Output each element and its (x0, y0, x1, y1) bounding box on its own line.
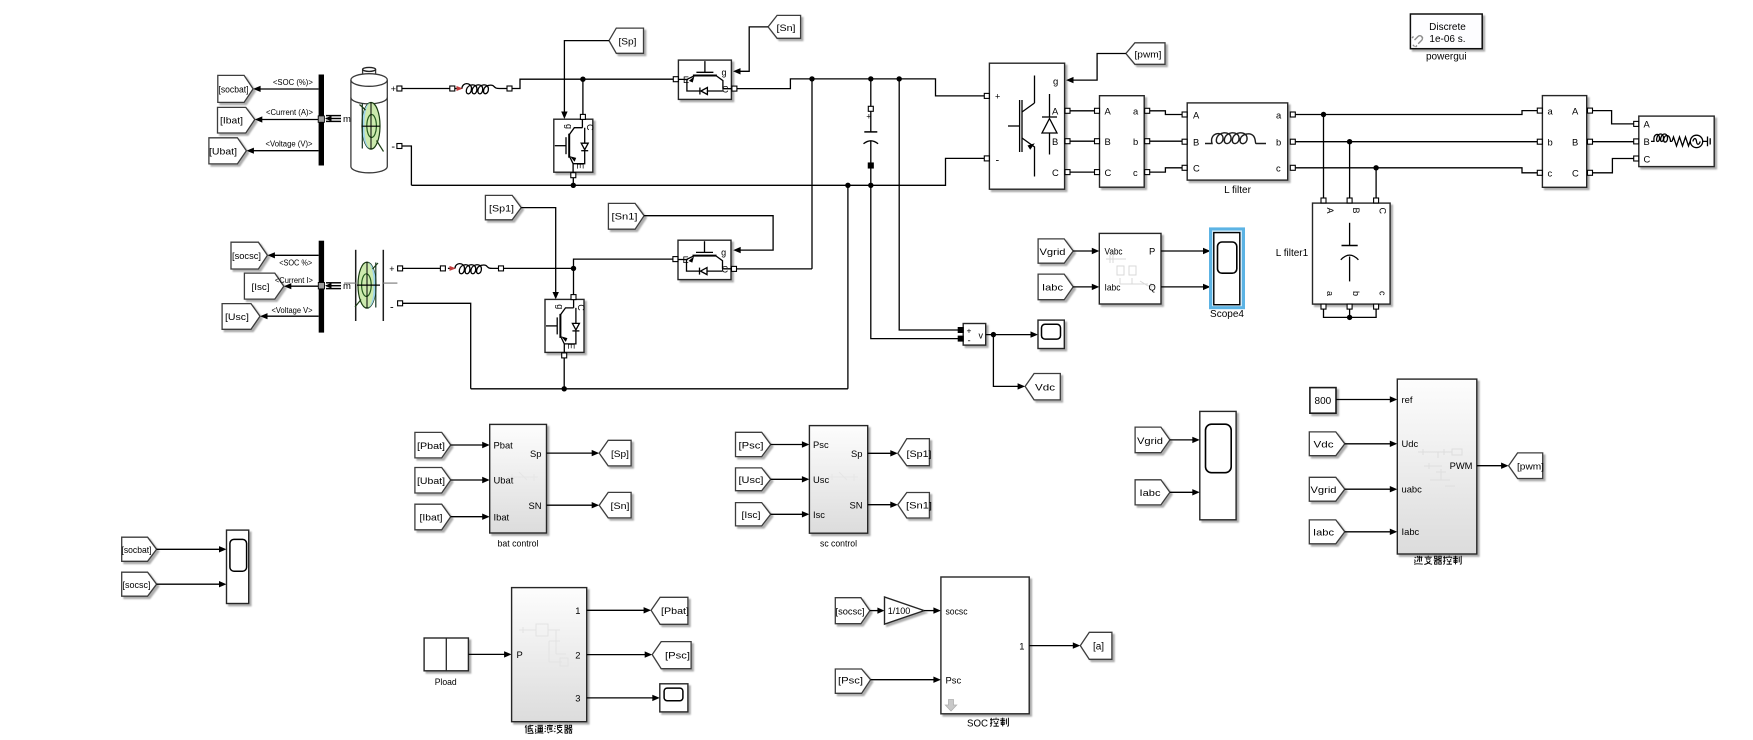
svg-text:Vdc: Vdc (1035, 382, 1056, 392)
svg-text:[Psc]: [Psc] (665, 651, 690, 661)
from tag [Sp1] (485, 195, 521, 219)
goto tag [Sp] out (599, 440, 631, 466)
sc control subsystem block (809, 426, 867, 534)
from tag [Isc] (736, 503, 771, 526)
svg-text:[Sp]: [Sp] (619, 37, 637, 47)
from tag [Psc] (736, 432, 771, 456)
svg-text:3: 3 (575, 693, 580, 704)
from tag [Sn1] (608, 203, 644, 229)
from tag [Psc] (soc ctrl) (835, 669, 870, 693)
bus selector bar (sc) (319, 241, 324, 333)
constant block 800 (1310, 388, 1336, 414)
from tag Iabc (1038, 274, 1073, 300)
svg-text:+: + (389, 264, 394, 274)
from tag [Sp] (609, 28, 644, 53)
svg-text:+: + (866, 112, 871, 122)
wire [Sn1] to IGBT4 gate (644, 216, 773, 250)
svg-text:B: B (1572, 137, 1578, 148)
from tag [Pbat] (415, 432, 451, 458)
svg-text:A: A (1325, 208, 1335, 214)
wire [Sn] to IGBT2 gate (740, 27, 768, 71)
measurement triple-line into bus selector 2 (326, 283, 341, 289)
svg-text:Vabc: Vabc (1105, 246, 1123, 257)
from tag [socsc] (soc ctrl) (835, 598, 870, 624)
svg-text:[socsc]: [socsc] (836, 607, 865, 617)
wire Iabc to Iabc (1345, 531, 1391, 533)
svg-text:+: + (995, 92, 1000, 102)
svg-text:2: 2 (575, 649, 580, 660)
wire Pload to LPF (468, 653, 505, 655)
svg-text:Scope4: Scope4 (1210, 309, 1244, 320)
svg-text:L filter: L filter (1224, 185, 1252, 196)
svg-text:Discrete: Discrete (1429, 22, 1466, 33)
svg-text:Iabc: Iabc (1105, 281, 1121, 292)
wires tags to sc control (771, 444, 803, 446)
svg-text:uabc: uabc (1402, 484, 1423, 495)
svg-text:PWM: PWM (1450, 460, 1473, 471)
svg-text:[Sn]: [Sn] (777, 23, 796, 33)
from tag [socbat] (bottom) (122, 537, 157, 561)
svg-text:b: b (1548, 137, 1553, 148)
svg-text:SOC: SOC (967, 719, 988, 730)
low-pass filter Chinese label (525, 725, 572, 734)
svg-text:[socbat]: [socbat] (219, 85, 249, 95)
svg-text:<SOC %>: <SOC %> (279, 258, 312, 267)
svg-text:[Sp1]: [Sp1] (907, 449, 932, 459)
svg-text:Psc: Psc (813, 439, 829, 450)
vertical link dc- bus down to voltage measurement - (871, 185, 958, 338)
current direction red arrow (sc) (450, 266, 457, 271)
scope3 (Pload scope) (660, 684, 688, 712)
L filter1 bottom shorting bus (1324, 309, 1377, 317)
goto tag [pwm] out (1509, 453, 1543, 479)
Pload source block (424, 638, 468, 671)
svg-text:[Pbat]: [Pbat] (417, 441, 445, 451)
svg-text:C: C (1105, 167, 1112, 178)
wires PQ to Scope4 (1161, 250, 1203, 252)
svg-text:Vgrid: Vgrid (1137, 436, 1163, 446)
goto tag [socsc] (231, 242, 267, 269)
svg-text:c: c (1378, 291, 1388, 296)
wires sc control outputs (868, 452, 892, 454)
universal bridge inverter U1 (989, 63, 1064, 189)
svg-text:C: C (1052, 167, 1059, 178)
svg-text:b: b (1276, 137, 1281, 148)
svg-text:m: m (343, 114, 351, 125)
from tag Iabc (scope) (1135, 480, 1170, 505)
svg-text:A: A (1644, 119, 1651, 130)
wire socbat from bus-selector to [socbat] tag (250, 89, 319, 151)
svg-text:[socsc]: [socsc] (123, 580, 151, 590)
IGBT2 block (battery boost, horizontal) (678, 60, 731, 99)
svg-text:[Ibat]: [Ibat] (220, 115, 243, 125)
wire Vgrid to uabc (1345, 488, 1391, 490)
svg-text:1e-06 s.: 1e-06 s. (1429, 34, 1465, 45)
svg-text:[Isc]: [Isc] (252, 282, 270, 292)
svg-text:a: a (1325, 291, 1335, 296)
Scope4 block (1214, 233, 1240, 305)
goto tag [Sp1] out (898, 439, 930, 466)
wires measurement2 to grid source (1593, 111, 1634, 173)
broken link icon (1412, 36, 1423, 47)
svg-text:Vdc: Vdc (1314, 440, 1335, 450)
svg-text:Psc: Psc (946, 675, 962, 686)
svg-text:P: P (517, 649, 523, 660)
wire [pwm] to inverter g (1073, 54, 1126, 81)
svg-text:+: + (391, 84, 396, 94)
svg-text:B: B (1105, 136, 1111, 147)
voltage measurement block (963, 324, 986, 346)
goto tag [Pbat] out (651, 597, 688, 624)
svg-text:Q: Q (1149, 281, 1156, 292)
scope2 (Vdc scope) (1038, 320, 1064, 348)
wire [Sp1] to IGBT3 gate (521, 208, 556, 293)
svg-text:E: E (683, 75, 689, 85)
port squares battery branch (397, 86, 512, 149)
sc minus wire to return bus (403, 303, 471, 389)
svg-text:L filter1: L filter1 (1276, 248, 1309, 259)
IGBT1 block (battery chopper, vertical) (554, 119, 593, 172)
svg-text:[Psc]: [Psc] (838, 676, 863, 686)
svg-text:b: b (1133, 136, 1138, 147)
svg-text:socsc: socsc (946, 605, 968, 616)
scope5 block (1200, 411, 1236, 519)
svg-text:P: P (1149, 246, 1155, 257)
capacitor icon inside L filter1 (1341, 223, 1359, 282)
svg-text:-: - (390, 302, 394, 314)
svg-text:[Ibat]: [Ibat] (420, 513, 443, 523)
svg-text:B: B (1644, 136, 1650, 147)
from tag [Ibat] (415, 504, 451, 530)
svg-text:B: B (1193, 137, 1199, 148)
svg-text:C: C (722, 265, 729, 275)
bus selector bar (battery) (319, 75, 324, 166)
vertical link dc+ bus down to voltage measurement + (899, 79, 958, 330)
svg-text:Iabc: Iabc (1402, 526, 1420, 537)
series inductor L2 (sc) (455, 264, 499, 274)
svg-text:c: c (1133, 167, 1138, 178)
PQ power measurement block (1099, 233, 1161, 304)
goto tag [Isc] (244, 273, 283, 299)
svg-text:[pwm]: [pwm] (1135, 49, 1162, 59)
IGBT3 block (sc chopper, vertical) (545, 299, 584, 352)
svg-text:-: - (391, 141, 395, 153)
svg-text:[pwm]: [pwm] (1517, 462, 1544, 472)
svg-text:A: A (1105, 106, 1112, 117)
goto tag [Sn] out (599, 492, 631, 518)
svg-text:Sp: Sp (530, 448, 541, 459)
grid icon: coil + resistor + ac source + ground (1651, 134, 1710, 148)
svg-text:E: E (575, 163, 585, 169)
measurement triple-line into bus selector (326, 116, 341, 122)
svg-text:[Sp]: [Sp] (611, 449, 629, 459)
three-phase lines L filter to measurement 2 (1296, 111, 1538, 173)
svg-text:<Current (A)>: <Current (A)> (266, 108, 313, 117)
svg-text:a: a (1133, 106, 1139, 117)
svg-text:1: 1 (1019, 640, 1024, 651)
svg-text:[Pbat]: [Pbat] (661, 606, 689, 616)
svg-text:<Voltage V>: <Voltage V> (272, 306, 313, 315)
junction node (bus top / IGBT1-C) (580, 77, 585, 82)
soc scope block (227, 530, 249, 603)
goto tag [Ibat] (218, 107, 255, 133)
wire PWM to [pwm] (1477, 465, 1502, 467)
svg-text:C: C (1193, 163, 1200, 174)
wires bus-selector2 to goto tags (263, 255, 319, 316)
sc return bus (471, 388, 848, 390)
wire SOC ctrl output to [a] (1029, 645, 1073, 647)
wires measurement1 to L filter (1150, 111, 1182, 172)
svg-text:<Current I>: <Current I> (275, 276, 313, 285)
goto tag [Ubat] (209, 138, 247, 164)
supercapacitor block (355, 250, 357, 321)
from tag [pwm] (1126, 43, 1165, 65)
wire sc + to inductor (403, 259, 673, 295)
svg-text:a: a (1276, 109, 1282, 120)
inverter control Chinese label (1414, 556, 1461, 565)
from tag [Usc] (736, 468, 771, 491)
svg-text:<SOC (%)>: <SOC (%)> (273, 78, 313, 87)
wire v out to scope2 and Vdc (986, 334, 1031, 336)
dc link capacitor C1 (864, 79, 879, 185)
wire IGBT3-E down to sc return bus (563, 355, 565, 389)
svg-text:[socbat]: [socbat] (122, 545, 152, 555)
three-phase VI measurement block 2 (1542, 96, 1586, 188)
svg-text:Iabc: Iabc (1313, 528, 1335, 538)
svg-text:g: g (555, 304, 565, 309)
svg-text:g: g (1053, 77, 1058, 88)
junction nodes on dc+ bus (809, 76, 814, 81)
supercap logo (355, 262, 380, 308)
svg-text:[Psc]: [Psc] (739, 440, 764, 450)
svg-text:Pload: Pload (435, 677, 457, 687)
faint internal icon of PQ block (1106, 255, 1154, 290)
svg-text:[Ubat]: [Ubat] (209, 147, 237, 157)
svg-text:Vgrid: Vgrid (1040, 247, 1066, 257)
wires to scope5 (1170, 439, 1193, 441)
svg-text:Isc: Isc (813, 509, 825, 520)
goto tag [socbat] (218, 75, 253, 102)
svg-text:[Isc]: [Isc] (742, 510, 761, 520)
svg-text:-: - (996, 155, 1000, 167)
svg-text:[Sn1]: [Sn1] (906, 501, 932, 511)
wire battery + to inductor (402, 79, 673, 114)
svg-text:C: C (722, 85, 729, 95)
L filter1 block (shunt capacitors) (1313, 203, 1391, 304)
svg-text:E: E (566, 343, 576, 349)
junction nodes to L filter1 (1321, 112, 1326, 117)
svg-text:powergui: powergui (1426, 52, 1467, 63)
junction node sc branch (571, 266, 576, 271)
L filter block (1187, 103, 1288, 180)
series inductor L1 (battery) (462, 84, 508, 94)
svg-text:[Usc]: [Usc] (739, 475, 764, 485)
svg-text:<Voltage (V)>: <Voltage (V)> (266, 139, 313, 148)
svg-text:[Sn1]: [Sn1] (612, 212, 638, 222)
svg-text:bat control: bat control (498, 539, 539, 549)
vertical link dc+ bus to sc converter C (811, 79, 813, 269)
from tag [Ubat] (415, 468, 451, 494)
three-phase VI measurement block 1 (1100, 96, 1145, 188)
current direction red arrow (457, 86, 464, 91)
svg-text:C: C (576, 304, 586, 311)
IGBT4 block (sc boost, horizontal) (678, 240, 731, 279)
from tag Iabc (ctrl) (1309, 520, 1345, 544)
svg-text:B: B (1351, 208, 1361, 214)
svg-text:a: a (1548, 106, 1554, 117)
wires tags to PQ block (1073, 250, 1092, 252)
gain block 1/100 (885, 597, 925, 624)
battery block (351, 67, 387, 172)
svg-text:[Sn]: [Sn] (611, 501, 630, 511)
svg-text:Ibat: Ibat (494, 511, 510, 522)
wire IGBT4-C to dc+ vertical (737, 268, 813, 270)
bat control subsystem block (490, 424, 547, 533)
wires LPF outputs (587, 609, 645, 611)
wire [Sp] to IGBT1 gate (564, 41, 609, 112)
grid source block (three-phase source) (1639, 116, 1714, 167)
svg-text:Vgrid: Vgrid (1311, 485, 1337, 495)
svg-text:1/100: 1/100 (888, 606, 911, 616)
svg-text:[Ubat]: [Ubat] (417, 476, 445, 486)
wire 800 to ref (1336, 399, 1391, 401)
from tag Vgrid (scope) (1135, 427, 1170, 453)
svg-text:C: C (585, 124, 595, 131)
wires tags to bat control (451, 444, 483, 446)
svg-text:A: A (1193, 109, 1200, 120)
wire IGBT2-C to dc+ bus (737, 79, 984, 96)
svg-text:A: A (1052, 106, 1059, 117)
goto tag [Psc] out (652, 642, 691, 669)
from tag Vgrid (1038, 239, 1073, 263)
from tag [socsc] (bottom) (122, 572, 157, 596)
from tag Vgrid (ctrl) (1309, 477, 1345, 501)
svg-text:E: E (683, 255, 689, 265)
svg-text:[Usc]: [Usc] (225, 312, 249, 322)
SOC control subsystem block (941, 577, 1029, 714)
wire IGBT1-E down to dc- bus (572, 175, 574, 186)
svg-text:g: g (722, 68, 727, 78)
svg-text:C: C (1378, 208, 1388, 215)
svg-text:SN: SN (849, 500, 862, 511)
wires bat control outputs (547, 452, 593, 454)
gray down-arrow annotation icon (945, 700, 956, 712)
port squares sc branch (398, 266, 504, 306)
from tag [Sn] (768, 15, 801, 38)
svg-text:g: g (721, 248, 726, 258)
svg-text:A: A (1572, 106, 1579, 117)
svg-text:Iabc: Iabc (1042, 283, 1064, 293)
svg-text:-: - (968, 335, 971, 346)
svg-text:c: c (1548, 168, 1553, 179)
svg-text:sc control: sc control (820, 539, 857, 549)
inverter control subsystem block (1397, 379, 1477, 554)
svg-text:C: C (1572, 168, 1579, 179)
svg-text:Ubat: Ubat (494, 475, 514, 486)
goto tag [Vdc] (1025, 374, 1060, 400)
svg-text:Sp: Sp (851, 448, 862, 459)
wires inverter ABC to measurement (1070, 111, 1097, 172)
low-pass filter subsystem block (512, 588, 587, 722)
svg-text:Udc: Udc (1402, 438, 1419, 449)
svg-text:1: 1 (575, 605, 580, 616)
powergui block (1410, 14, 1482, 49)
svg-text:[Sp1]: [Sp1] (489, 203, 514, 213)
svg-text:c: c (1276, 163, 1281, 174)
vertical link dc- bus down to sc return bus (847, 185, 849, 388)
svg-text:Iabc: Iabc (1140, 488, 1162, 498)
svg-text:g: g (564, 124, 574, 129)
wire Vdc to Udc (1345, 443, 1391, 445)
svg-text:B: B (1052, 136, 1058, 147)
goto tag [a] (1080, 632, 1112, 659)
dc- bus (battery row) (411, 158, 984, 185)
wires to soc scope (157, 548, 220, 550)
svg-text:[socsc]: [socsc] (232, 251, 261, 261)
battery logo (360, 102, 384, 151)
svg-text:Pbat: Pbat (494, 440, 514, 451)
goto tag [Usc] (222, 304, 260, 330)
svg-text:800: 800 (1315, 396, 1332, 407)
svg-text:Usc: Usc (813, 474, 829, 485)
L filter inductor icon (1205, 133, 1266, 144)
svg-text:ref: ref (1402, 394, 1413, 405)
wire tag to gain (870, 610, 878, 612)
from tag Vdc (ctrl) (1309, 432, 1345, 456)
svg-text:C: C (1644, 153, 1651, 164)
wire gain to SOC ctrl (924, 610, 934, 612)
goto tag [Sn1] out (898, 493, 930, 519)
svg-text:SN: SN (528, 500, 541, 511)
svg-text:v: v (979, 331, 984, 341)
battery minus wire to dc- bus (402, 146, 411, 185)
Scope4 selection highlight (1211, 229, 1244, 308)
wire [Psc] to SOC ctrl (871, 679, 935, 681)
svg-text:b: b (1351, 291, 1361, 296)
svg-text:[a]: [a] (1093, 642, 1104, 653)
